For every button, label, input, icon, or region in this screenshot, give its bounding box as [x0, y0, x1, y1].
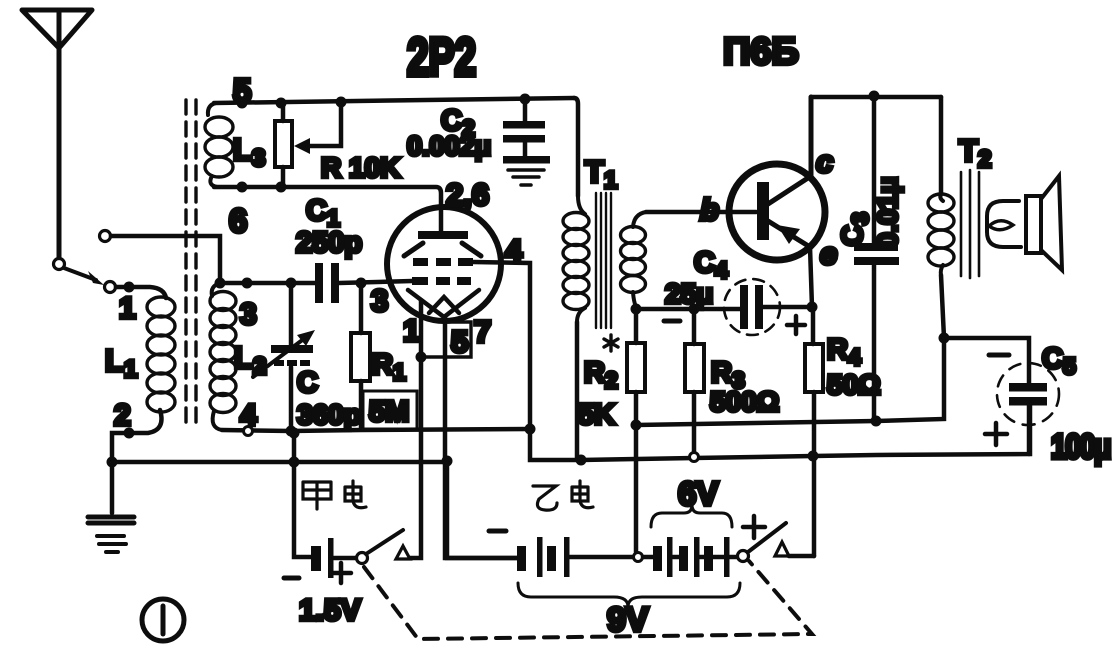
junction dot pin4/common	[525, 424, 536, 435]
wire C1 to tube grid	[339, 281, 412, 283]
resistor R2 leads	[634, 309, 639, 552]
wire contact to R4 column	[789, 554, 814, 559]
svg-text:e: e	[820, 236, 837, 271]
junction dot rail B pin5 lead	[442, 456, 453, 467]
junction dot R1 top	[356, 278, 367, 289]
svg-text:1.5V: 1.5V	[299, 594, 361, 627]
junction dot C bottom on pin4 wire	[286, 426, 297, 437]
battery A column wire	[294, 433, 311, 557]
dashed mechanical link	[364, 561, 812, 639]
tube grid row 2	[412, 277, 471, 285]
capacitor C4 dashed circle	[724, 279, 780, 335]
transformer T2 primary coil	[928, 194, 954, 275]
box around 5M value	[363, 391, 417, 429]
capacitor C2 plates	[503, 121, 545, 143]
svg-text:6V: 6V	[678, 475, 718, 512]
junction dot emitter node	[807, 302, 818, 313]
svg-text:1: 1	[403, 313, 420, 348]
battery B cells (3V section)	[517, 537, 570, 577]
junction dot C3 bottom	[871, 416, 882, 427]
antenna switch arm with arrow	[64, 268, 104, 285]
resistor R1 body	[351, 333, 370, 381]
junction dot var cap top	[286, 278, 297, 289]
asterisk	[604, 335, 618, 351]
ground (chassis)	[88, 517, 134, 552]
resistor R2 body	[627, 343, 645, 392]
variable capacitor C lead	[289, 283, 294, 431]
label plus C5	[985, 423, 1007, 445]
junction dot battery A column top	[289, 428, 300, 439]
capacitor C5 bottom lead	[1027, 405, 1032, 454]
svg-text:100μ: 100μ	[1051, 428, 1110, 466]
wire upper contact to L2 top	[111, 236, 220, 281]
battery B lead from rail	[447, 461, 517, 558]
junction dot rail at x112	[107, 457, 118, 468]
wire 6V to switch pivot	[730, 555, 738, 560]
svg-text:2,6: 2,6	[446, 177, 489, 212]
svg-text:2: 2	[114, 399, 131, 432]
junction dot pin5	[237, 98, 248, 109]
svg-text:3: 3	[371, 283, 388, 318]
tube filament V with arrow	[408, 290, 479, 317]
battery B cells (6V section)	[653, 537, 730, 577]
label plus battery A	[331, 563, 351, 583]
wire L3 bottom y187 to tube plate	[214, 187, 441, 231]
wires between 6V cells	[673, 555, 724, 560]
transformer T1 primary coil	[563, 196, 589, 322]
antenna	[22, 10, 92, 258]
junction diamond on L1 bottom wire	[124, 428, 135, 439]
battery B tap ring	[634, 553, 643, 562]
resistor R4 body	[805, 344, 823, 392]
antenna switch upper contact (to L2)	[100, 231, 111, 242]
junction dot wiper tie	[336, 97, 347, 108]
wire C4 to emitter node	[763, 305, 812, 310]
wire B+ line (R2 bottom to T2 primary bottom)	[636, 338, 944, 425]
wire T1 secondary top to base	[646, 210, 756, 215]
wire top rail y102	[214, 98, 574, 103]
svg-text:0.01μ: 0.01μ	[872, 176, 903, 248]
wire grid line y283	[220, 281, 316, 286]
capacitor C2 lead	[523, 99, 528, 157]
label A-battery (jia dian)	[303, 481, 366, 509]
junction dot on L1 top wire	[124, 282, 135, 293]
junction ring R3 bottom	[690, 453, 699, 462]
resistor R3 leads	[692, 309, 697, 453]
junction dot T1 primary bottom on rail	[576, 455, 587, 466]
node L2 top junction	[215, 278, 226, 289]
svg-text:5M: 5M	[369, 396, 409, 428]
speaker	[1026, 176, 1062, 270]
junction dot R4 bottom on rail	[808, 451, 819, 462]
capacitor C3 lead top	[872, 96, 877, 243]
tube 2P2 envelope	[387, 207, 501, 321]
svg-text:25μ: 25μ	[665, 278, 713, 309]
tube grid row 1	[413, 258, 473, 266]
wire common y430 (R1 bottom to tube pin4 drop)	[291, 429, 530, 431]
box around pin 5	[421, 322, 471, 357]
switch S2 pivot	[738, 551, 749, 562]
junction dot R3 top	[689, 304, 700, 315]
label plus battery B	[743, 516, 765, 538]
svg-text:7: 7	[474, 314, 491, 349]
coil L1	[147, 297, 175, 412]
transformer T2 core	[961, 170, 979, 278]
ground under C2	[503, 156, 550, 185]
switch S2 blade	[748, 523, 786, 552]
transformer T1 secondary coil	[621, 212, 647, 309]
svg-text:250p: 250p	[296, 227, 362, 259]
wire cells to tap	[570, 555, 633, 560]
transistor U1 envelope	[729, 164, 825, 260]
junction dot pin1/box	[416, 352, 427, 363]
switch S1 blade	[366, 530, 403, 554]
svg-text:b: b	[700, 192, 719, 227]
T1 primary bottom lead	[575, 322, 580, 459]
junction dot C3 top	[869, 91, 880, 102]
transistor base bar	[757, 182, 769, 240]
switch S1 pivot	[357, 553, 368, 564]
figure number circle 1	[142, 599, 184, 641]
capacitor C3 plates	[854, 243, 899, 265]
emitter lead down	[810, 247, 812, 307]
junction dot pot bottom	[276, 182, 287, 193]
junction marker pin4 wire	[244, 427, 253, 436]
label minus C4	[664, 319, 680, 324]
tube pin1 lead down to filament switch	[407, 300, 421, 558]
switch S1 fixed contact triangle	[396, 546, 410, 559]
tube pin4 wire to the right and down	[473, 262, 530, 429]
wire rail C (pin4 to C5)	[530, 405, 1030, 460]
wire L1 bottom to ground corner	[112, 410, 162, 460]
potentiometer leads	[281, 103, 286, 187]
capacitor C4 plates	[740, 285, 763, 329]
transistor collector lead	[768, 97, 811, 204]
potentiometer R 10K body	[275, 121, 292, 167]
label plus C4	[787, 316, 805, 334]
svg-text:c: c	[816, 144, 833, 179]
svg-text:5K: 5K	[578, 399, 615, 431]
svg-text:1: 1	[119, 292, 136, 325]
label minus C5	[989, 353, 1009, 358]
wire T2 primary bottom to C5 top	[944, 338, 1029, 383]
resistor R3 body	[685, 344, 704, 392]
potentiometer wiper arrow	[294, 102, 341, 154]
svg-text:360p: 360p	[297, 399, 361, 430]
wire L2 bottom to junction	[222, 430, 291, 431]
switch S2 fixed contact triangle	[775, 542, 789, 556]
wire collector top rail	[811, 95, 941, 100]
junction dot pin6	[237, 182, 248, 193]
svg-text:500Ω: 500Ω	[710, 386, 779, 417]
resistor R1 leads	[359, 283, 364, 428]
tube plate (anode)	[418, 231, 468, 239]
brace 9V	[518, 583, 740, 607]
transformer T2 secondary loop	[987, 201, 1021, 247]
transformer core (dashed lines L1/L2/L3)	[186, 100, 196, 428]
transistor emitter lead with PNP arrow	[768, 221, 810, 247]
capacitor C5 plates	[1009, 383, 1047, 406]
T2 primary bottom lead	[941, 275, 944, 338]
wire base bias y309	[636, 307, 741, 312]
antenna switch terminal (pole)	[54, 259, 65, 270]
label minus battery B	[489, 529, 506, 534]
svg-text:R 10K: R 10K	[321, 152, 400, 183]
wire top rail corner down to T2 primary	[939, 97, 944, 194]
junction dot T1 secondary bottom	[631, 304, 642, 315]
svg-text:3: 3	[240, 298, 257, 331]
variable capacitor arrow	[253, 330, 315, 377]
svg-text:9V: 9V	[607, 601, 649, 639]
junction dot T2 primary bottom	[939, 333, 950, 344]
coil L3	[205, 103, 233, 187]
junction dot pot top	[276, 98, 287, 109]
capacitor C3 lead bottom	[872, 265, 877, 421]
svg-text:П6Б: П6Б	[723, 31, 799, 73]
wire battery A plus to switch	[334, 556, 356, 561]
tube pin5 lead down	[445, 317, 520, 558]
coil L2	[210, 283, 236, 430]
antenna switch contact to L1 (terminal 1)	[105, 282, 116, 293]
svg-text:2P2: 2P2	[407, 27, 476, 86]
brace 6V	[651, 505, 732, 527]
wire top rail corner down to T1 primary	[574, 98, 578, 196]
wire down to ground	[110, 462, 115, 513]
resistor R4 leads	[813, 307, 814, 556]
svg-text:5: 5	[451, 324, 468, 359]
junction dot L2 coil top	[242, 278, 253, 289]
wire common rail B (left)	[112, 460, 447, 465]
capacitor C5 dashed circle	[997, 363, 1059, 425]
svg-text:0.002μ: 0.002μ	[407, 131, 491, 161]
capacitor C1 plates	[315, 263, 339, 303]
wire tap to 6V section	[643, 555, 653, 560]
junction dot rail B at battery column	[289, 457, 300, 468]
label minus battery A	[284, 576, 299, 581]
junction dot C2 top	[520, 94, 531, 105]
wire switch to L1 top	[116, 287, 166, 298]
svg-text:6: 6	[229, 202, 247, 239]
svg-text:C: C	[297, 367, 318, 399]
transformer T1 core	[596, 193, 611, 328]
label B-battery (yi dian)	[533, 481, 593, 510]
tube beam plates (diagonal ticks)	[404, 243, 481, 256]
battery A cell (1.5V)	[311, 538, 334, 578]
variable capacitor C plates	[271, 345, 313, 366]
junction dot R2 bottom / B+ wire	[631, 420, 642, 431]
